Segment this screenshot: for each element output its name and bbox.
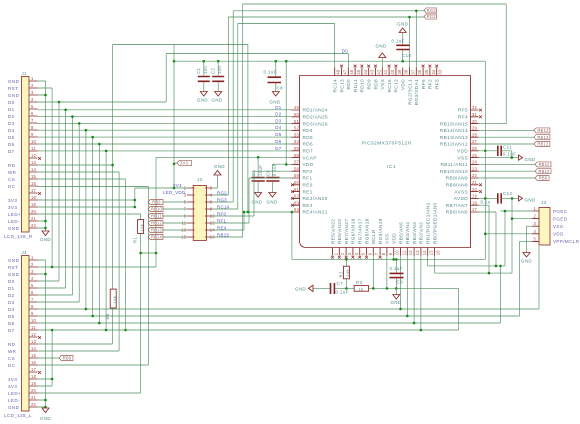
svg-text:RB13: RB13 bbox=[537, 135, 549, 140]
svg-text:C8: C8 bbox=[277, 86, 284, 91]
wire VDD right side rail down to J3 and bottom bbox=[292, 61, 532, 273]
svg-text:D4: D4 bbox=[8, 128, 15, 133]
svg-text:0.1uF: 0.1uF bbox=[336, 290, 349, 295]
wire net D4 J1-J4 long run to riser bbox=[38, 130, 540, 309]
svg-text:GND: GND bbox=[525, 198, 536, 203]
wire net RD J1-J4 through R6 and top link bbox=[38, 45, 248, 345]
svg-text:11: 11 bbox=[31, 146, 36, 151]
wire VSS top pin to ground bbox=[381, 58, 383, 68]
svg-text:MCLR: MCLR bbox=[371, 229, 376, 244]
svg-text:WR: WR bbox=[8, 170, 17, 175]
svg-text:VSS: VSS bbox=[380, 79, 385, 90]
svg-text:RE5/AN22: RE5/AN22 bbox=[330, 219, 335, 244]
svg-text:RF1: RF1 bbox=[303, 176, 313, 181]
svg-text:RB3/AN3: RB3/AN3 bbox=[412, 222, 417, 244]
svg-text:1k: 1k bbox=[359, 286, 364, 291]
svg-text:CS: CS bbox=[8, 177, 15, 182]
node label box RB13 bbox=[534, 135, 550, 140]
svg-text:PGEC: PGEC bbox=[553, 209, 568, 214]
svg-text:RB15/AN15: RB15/AN15 bbox=[440, 121, 468, 126]
ground symbol above VSS top pin bbox=[379, 53, 386, 58]
wires IC bottom pins RB5-RB2 to bus rows bbox=[401, 256, 421, 331]
wire J4 CS row to label box bbox=[38, 357, 60, 359]
svg-text:28: 28 bbox=[472, 132, 478, 137]
IC1 nc x-marks right pins bbox=[479, 109, 482, 112]
svg-text:R3: R3 bbox=[356, 280, 363, 285]
svg-text:RG9/AN19: RG9/AN19 bbox=[378, 218, 383, 244]
ground symbol below J4 bbox=[42, 408, 49, 413]
svg-text:RB15: RB15 bbox=[217, 232, 229, 237]
svg-text:10uF: 10uF bbox=[258, 165, 263, 176]
svg-text:C7: C7 bbox=[337, 281, 344, 286]
svg-text:11: 11 bbox=[401, 250, 406, 255]
svg-text:VCAP: VCAP bbox=[303, 155, 317, 160]
capacitor C10 0.1uF at VDD top bbox=[396, 45, 409, 49]
svg-text:22: 22 bbox=[472, 173, 478, 178]
svg-text:RB7/AN7: RB7/AN7 bbox=[446, 203, 468, 208]
supply label 3V3 bbox=[174, 162, 177, 164]
svg-text:GND: GND bbox=[8, 79, 20, 84]
svg-text:RD10: RD10 bbox=[360, 79, 365, 93]
svg-text:GND: GND bbox=[269, 100, 280, 105]
svg-text:GND: GND bbox=[397, 22, 408, 27]
svg-text:11: 11 bbox=[31, 325, 36, 330]
svg-text:RB10/AN10: RB10/AN10 bbox=[440, 169, 468, 174]
svg-text:AVSS: AVSS bbox=[454, 189, 468, 194]
svg-text:RC13: RC13 bbox=[339, 79, 344, 93]
svg-text:10: 10 bbox=[31, 318, 37, 323]
node label box RB9 bbox=[535, 176, 549, 181]
svg-text:RB9: RB9 bbox=[539, 176, 548, 181]
svg-text:0.1u: 0.1u bbox=[481, 199, 491, 204]
svg-text:41: 41 bbox=[383, 69, 388, 75]
connector J1 LCD_128_R body bbox=[22, 77, 30, 233]
IC1 nc x-marks bottom pins bbox=[331, 256, 334, 259]
svg-text:GND: GND bbox=[211, 97, 222, 102]
connector J2 body bbox=[193, 185, 206, 240]
svg-text:GND: GND bbox=[266, 200, 277, 205]
ground symbol below C6 bbox=[269, 193, 276, 198]
svg-text:45: 45 bbox=[356, 69, 361, 75]
svg-text:C10: C10 bbox=[402, 53, 411, 58]
svg-text:RB13: RB13 bbox=[151, 228, 163, 233]
svg-text:D2: D2 bbox=[8, 114, 15, 119]
wire VDD rail across top bbox=[174, 61, 485, 164]
svg-text:RB11/AN11: RB11/AN11 bbox=[441, 162, 468, 167]
svg-text:19: 19 bbox=[31, 381, 37, 386]
svg-text:17: 17 bbox=[31, 188, 37, 193]
svg-text:21: 21 bbox=[31, 216, 37, 221]
wire net D0 J1-J4 and to RD0 bbox=[38, 54, 349, 282]
svg-text:D3: D3 bbox=[275, 118, 281, 123]
ground symbol above C10 bbox=[399, 28, 406, 33]
svg-text:RC14: RC14 bbox=[333, 79, 338, 93]
svg-text:GND: GND bbox=[521, 259, 532, 264]
svg-text:3V3: 3V3 bbox=[180, 161, 188, 166]
ground symbol below J3 bbox=[523, 253, 530, 258]
wire net D5 J1-J4 long run to J3 pin5 riser bbox=[38, 137, 533, 316]
connector J1 pin stubs bbox=[29, 81, 38, 228]
svg-text:10k: 10k bbox=[139, 224, 144, 232]
svg-text:35: 35 bbox=[424, 69, 429, 75]
svg-text:RG3: RG3 bbox=[217, 197, 227, 202]
svg-text:56: 56 bbox=[294, 153, 300, 158]
connector J4 nc x-marks pins 12 17 bbox=[38, 336, 41, 339]
svg-text:46: 46 bbox=[349, 69, 354, 75]
svg-text:LCD_128_R: LCD_128_R bbox=[4, 234, 33, 239]
svg-text:C5: C5 bbox=[251, 170, 256, 176]
svg-text:C6: C6 bbox=[265, 170, 270, 176]
svg-text:48: 48 bbox=[336, 69, 341, 75]
svg-text:0.1uF: 0.1uF bbox=[272, 163, 277, 176]
svg-text:49: 49 bbox=[294, 105, 300, 110]
svg-text:RD3/AN26: RD3/AN26 bbox=[303, 121, 328, 126]
ground symbol left of C7 bbox=[308, 285, 313, 291]
svg-text:44: 44 bbox=[363, 69, 368, 75]
svg-text:RE4: RE4 bbox=[217, 225, 227, 230]
capacitor C6 0.1uF bbox=[266, 178, 279, 181]
svg-text:RB4/AN4: RB4/AN4 bbox=[405, 222, 410, 244]
svg-text:38: 38 bbox=[404, 69, 409, 75]
svg-text:RB13/AN13: RB13/AN13 bbox=[440, 135, 468, 140]
svg-text:RG2: RG2 bbox=[217, 190, 227, 195]
svg-text:12: 12 bbox=[31, 153, 37, 158]
svg-text:C11: C11 bbox=[503, 144, 512, 149]
capacitor C8 0.1uF bbox=[268, 77, 282, 82]
resistor R3 1k bbox=[354, 286, 369, 292]
svg-text:23: 23 bbox=[472, 166, 478, 171]
wire net PGEC J3 to IC bottom bbox=[428, 211, 532, 266]
connector J2 pin stubs bbox=[187, 188, 212, 237]
svg-text:J1: J1 bbox=[22, 71, 28, 76]
ground symbol right of C12 bbox=[519, 196, 523, 201]
svg-text:PGED: PGED bbox=[553, 216, 568, 221]
svg-text:20: 20 bbox=[472, 187, 478, 192]
svg-text:GND: GND bbox=[8, 405, 20, 410]
wire net DC J1-J4 bbox=[38, 187, 149, 366]
svg-text:R6: R6 bbox=[105, 313, 110, 319]
wire net RE4 J2 to IC bbox=[212, 212, 292, 230]
svg-text:0.1uF: 0.1uF bbox=[503, 152, 516, 157]
svg-text:RD6: RD6 bbox=[303, 142, 314, 147]
svg-text:AVDD: AVDD bbox=[454, 196, 468, 201]
svg-text:10n: 10n bbox=[203, 66, 208, 74]
svg-text:13: 13 bbox=[415, 250, 420, 256]
svg-text:3V3: 3V3 bbox=[8, 198, 17, 203]
wire net 3V3 J1 rows to vertical bbox=[38, 188, 191, 207]
svg-text:RB12: RB12 bbox=[151, 221, 163, 226]
svg-text:18: 18 bbox=[31, 374, 37, 379]
svg-text:C1: C1 bbox=[196, 68, 201, 74]
svg-text:CS: CS bbox=[8, 356, 15, 361]
svg-text:RD8: RD8 bbox=[373, 79, 378, 90]
svg-text:55: 55 bbox=[294, 146, 300, 151]
svg-text:RST: RST bbox=[8, 86, 18, 91]
svg-text:D1: D1 bbox=[8, 286, 15, 291]
connector J4 pin stubs bbox=[29, 260, 38, 407]
svg-text:52: 52 bbox=[294, 126, 300, 131]
ground symbol below J1 bbox=[42, 231, 49, 236]
svg-text:21: 21 bbox=[31, 395, 37, 400]
svg-text:IC1: IC1 bbox=[387, 164, 396, 170]
svg-text:60: 60 bbox=[294, 180, 300, 185]
svg-text:RB9/AN9: RB9/AN9 bbox=[446, 176, 468, 181]
svg-text:54: 54 bbox=[294, 139, 300, 144]
svg-text:31: 31 bbox=[472, 112, 478, 117]
svg-text:D6: D6 bbox=[275, 139, 281, 144]
node label box RB14 bbox=[534, 128, 550, 133]
svg-text:RG8/AN18: RG8/AN18 bbox=[364, 218, 369, 244]
svg-text:GND: GND bbox=[295, 287, 306, 292]
capacitor C5 10uF bbox=[252, 178, 265, 181]
svg-text:47: 47 bbox=[342, 69, 347, 75]
svg-text:VDD: VDD bbox=[553, 232, 564, 237]
svg-text:RC14: RC14 bbox=[217, 204, 230, 209]
svg-text:RF5: RF5 bbox=[458, 108, 468, 113]
svg-text:RG7/AN17: RG7/AN17 bbox=[358, 218, 363, 244]
svg-text:RD11: RD11 bbox=[353, 79, 358, 92]
wires IC right pins to label boxes RB11 RB10 RB9 bbox=[479, 164, 536, 178]
svg-text:D5: D5 bbox=[275, 132, 281, 137]
node label box RB10 bbox=[535, 169, 551, 174]
wire net RF0 J2 to IC bbox=[212, 171, 292, 216]
svg-text:RB11: RB11 bbox=[539, 162, 550, 167]
svg-text:D6: D6 bbox=[8, 321, 15, 326]
svg-text:D6: D6 bbox=[8, 142, 15, 147]
svg-text:51: 51 bbox=[294, 119, 300, 124]
svg-text:19: 19 bbox=[31, 202, 37, 207]
node label box RG3 bbox=[424, 8, 437, 13]
IC1 pin stubs left right top bottom bbox=[292, 68, 479, 256]
svg-text:C9: C9 bbox=[397, 280, 404, 285]
node label box RB11 bbox=[535, 162, 551, 167]
svg-text:61: 61 bbox=[294, 187, 300, 192]
svg-text:RB10: RB10 bbox=[538, 169, 550, 174]
svg-text:RB1/PGEC1/AN1: RB1/PGEC1/AN1 bbox=[426, 202, 431, 244]
svg-text:D1: D1 bbox=[8, 107, 15, 112]
svg-text:36: 36 bbox=[417, 69, 422, 75]
svg-text:RB14: RB14 bbox=[537, 128, 549, 133]
svg-text:RD5: RD5 bbox=[303, 135, 314, 140]
svg-text:LCD_128_L: LCD_128_L bbox=[4, 413, 32, 418]
svg-text:D5: D5 bbox=[8, 135, 15, 140]
svg-text:GND: GND bbox=[375, 44, 386, 49]
wire net D3 J1-J4-IC1 bbox=[38, 123, 292, 302]
wire net 3V3 at J4 rows bbox=[38, 330, 53, 386]
svg-text:D7: D7 bbox=[8, 328, 15, 333]
svg-text:VSS: VSS bbox=[457, 155, 468, 160]
ground symbol below C1 bbox=[200, 92, 207, 97]
svg-text:RB0/PGED1/AN0: RB0/PGED1/AN0 bbox=[432, 202, 437, 244]
IC1 nc x-marks top pins bbox=[340, 65, 343, 68]
svg-text:RE0: RE0 bbox=[303, 183, 313, 188]
svg-text:RB6/AN6: RB6/AN6 bbox=[446, 210, 468, 215]
svg-text:GND: GND bbox=[8, 93, 20, 98]
svg-text:D5: D5 bbox=[8, 314, 15, 319]
svg-text:58: 58 bbox=[294, 166, 300, 171]
svg-text:RG6/AN16: RG6/AN16 bbox=[351, 218, 356, 244]
svg-text:D1: D1 bbox=[275, 105, 281, 110]
svg-text:17: 17 bbox=[472, 207, 478, 212]
svg-text:LED-: LED- bbox=[8, 398, 20, 403]
svg-text:14: 14 bbox=[31, 167, 37, 172]
svg-text:VDD: VDD bbox=[303, 162, 314, 167]
capacitor C7 0.1uF bbox=[331, 283, 335, 294]
svg-text:3V3: 3V3 bbox=[8, 384, 17, 389]
wire net GND at J1 with junctions bbox=[38, 81, 46, 231]
svg-text:RF6: RF6 bbox=[421, 79, 426, 89]
svg-text:J2: J2 bbox=[197, 177, 203, 182]
svg-text:39: 39 bbox=[397, 69, 402, 75]
svg-text:GND: GND bbox=[525, 157, 536, 162]
svg-text:RE3: RE3 bbox=[303, 203, 313, 208]
svg-text:DC: DC bbox=[8, 184, 16, 189]
capacitor C12 0.1uF at AVDD bbox=[498, 193, 501, 203]
svg-text:19: 19 bbox=[472, 194, 478, 199]
connector J3 pin stubs bbox=[532, 211, 539, 241]
svg-text:40: 40 bbox=[390, 69, 395, 75]
svg-text:C12: C12 bbox=[503, 191, 512, 196]
svg-text:RD0: RD0 bbox=[346, 79, 351, 90]
wire net VCAP line to C5 bbox=[156, 156, 292, 158]
svg-text:GND: GND bbox=[390, 300, 401, 305]
connector J3 body bbox=[539, 208, 550, 246]
wire net RG3 from J2 to rail to IC and label bbox=[212, 11, 424, 202]
svg-text:RD1/AN24: RD1/AN24 bbox=[303, 108, 328, 113]
svg-text:LED+: LED+ bbox=[8, 212, 21, 217]
svg-text:R2: R2 bbox=[338, 271, 343, 277]
svg-text:64: 64 bbox=[294, 207, 300, 212]
connector J1 nc x-marks pins 12 17 bbox=[38, 157, 41, 160]
svg-text:GND: GND bbox=[8, 258, 20, 263]
svg-text:RD9: RD9 bbox=[367, 79, 372, 90]
svg-text:D7: D7 bbox=[275, 146, 281, 151]
svg-text:0.1uF: 0.1uF bbox=[392, 39, 405, 44]
svg-text:RF0: RF0 bbox=[217, 211, 226, 216]
svg-text:RB12/AN12: RB12/AN12 bbox=[440, 142, 468, 147]
svg-text:GND: GND bbox=[251, 200, 262, 205]
svg-text:30: 30 bbox=[472, 119, 478, 124]
wire net 3V3 supply vertical from VDD rail bbox=[173, 45, 175, 189]
svg-text:RG3/SDA1: RG3/SDA1 bbox=[414, 79, 419, 105]
svg-text:GND: GND bbox=[8, 272, 20, 277]
svg-text:RB9: RB9 bbox=[152, 200, 161, 205]
svg-text:D4: D4 bbox=[8, 307, 15, 312]
wire net D1 J1-J4-IC1 bbox=[38, 110, 292, 288]
svg-text:RD4: RD4 bbox=[303, 128, 314, 133]
svg-text:18: 18 bbox=[31, 195, 37, 200]
svg-text:0.1uF: 0.1uF bbox=[264, 70, 277, 75]
svg-text:29: 29 bbox=[472, 126, 478, 131]
resistor R2 10k bbox=[345, 259, 347, 288]
svg-text:RG2: RG2 bbox=[427, 14, 437, 19]
wire net CS J1 down to D7 row bbox=[38, 179, 126, 330]
svg-text:22: 22 bbox=[31, 223, 37, 228]
svg-text:3V3: 3V3 bbox=[8, 377, 17, 382]
svg-text:D0: D0 bbox=[8, 100, 15, 105]
svg-text:10k: 10k bbox=[112, 296, 117, 304]
ground symbol below C2 bbox=[215, 92, 222, 97]
svg-text:15: 15 bbox=[31, 353, 37, 358]
svg-text:42: 42 bbox=[376, 69, 381, 75]
svg-text:0.1uF: 0.1uF bbox=[390, 266, 403, 271]
svg-text:RE1: RE1 bbox=[303, 189, 313, 194]
wire J3 VSS to ground bbox=[527, 226, 533, 252]
wire net RST J1-J4 and to R1 node bbox=[38, 88, 157, 267]
svg-text:14: 14 bbox=[422, 250, 427, 256]
svg-text:12: 12 bbox=[31, 332, 37, 337]
capacitor C9 0.1uF bbox=[390, 273, 404, 277]
svg-text:J4: J4 bbox=[22, 250, 28, 255]
svg-text:GND: GND bbox=[8, 226, 20, 231]
svg-text:13: 13 bbox=[31, 339, 37, 344]
svg-text:16: 16 bbox=[31, 360, 37, 365]
svg-text:10n: 10n bbox=[217, 66, 222, 74]
svg-text:15: 15 bbox=[31, 174, 37, 179]
svg-text:RC12: RC12 bbox=[394, 79, 399, 93]
svg-text:21: 21 bbox=[472, 180, 478, 185]
svg-text:22: 22 bbox=[31, 402, 37, 407]
svg-text:10k: 10k bbox=[345, 269, 350, 277]
wires J2 left pins to label boxes bbox=[163, 202, 188, 237]
svg-text:D0: D0 bbox=[8, 279, 15, 284]
svg-text:VDD: VDD bbox=[457, 149, 468, 154]
wire net LED+ J1 through R1 R6 chain to J4 bbox=[38, 214, 141, 393]
svg-text:D7: D7 bbox=[8, 149, 15, 154]
svg-text:37: 37 bbox=[410, 69, 415, 75]
svg-text:D0: D0 bbox=[342, 49, 348, 54]
svg-text:13: 13 bbox=[31, 160, 37, 165]
svg-text:34: 34 bbox=[431, 69, 436, 75]
svg-text:18: 18 bbox=[472, 200, 478, 205]
svg-text:RD: RD bbox=[8, 163, 16, 168]
svg-text:43: 43 bbox=[370, 69, 375, 75]
svg-text:RB10: RB10 bbox=[151, 207, 163, 212]
ground symbol below C5 bbox=[255, 193, 262, 198]
svg-text:C2: C2 bbox=[210, 68, 215, 74]
svg-text:RF0: RF0 bbox=[303, 169, 313, 174]
svg-text:RB5/AN5: RB5/AN5 bbox=[398, 222, 403, 244]
IC1 nc x-marks left pins RE0-RE3 bbox=[291, 183, 294, 186]
svg-text:53: 53 bbox=[294, 132, 300, 137]
capacitor C2 10n bbox=[212, 77, 224, 82]
svg-text:3V3: 3V3 bbox=[8, 205, 17, 210]
svg-text:32: 32 bbox=[472, 105, 478, 110]
svg-text:RC15: RC15 bbox=[387, 79, 392, 93]
svg-text:VDD: VDD bbox=[401, 79, 406, 90]
svg-text:DC: DC bbox=[8, 363, 16, 368]
svg-text:26: 26 bbox=[472, 146, 478, 151]
svg-text:16: 16 bbox=[31, 181, 37, 186]
svg-text:16: 16 bbox=[435, 250, 440, 256]
svg-text:50: 50 bbox=[294, 112, 300, 117]
wire MCLR ground line with junctions bbox=[313, 256, 459, 289]
svg-text:RF4: RF4 bbox=[458, 115, 468, 120]
svg-text:LED_VDD: LED_VDD bbox=[163, 190, 185, 195]
svg-text:RD7: RD7 bbox=[303, 149, 314, 154]
svg-text:RB9: RB9 bbox=[63, 356, 72, 361]
svg-text:WR: WR bbox=[8, 349, 17, 354]
node label box RG2 bbox=[424, 14, 437, 19]
ground symbol above J2 pin2 bbox=[214, 170, 221, 175]
wire J2 pin2 to ground bbox=[212, 175, 218, 188]
svg-text:RE4/AN21: RE4/AN21 bbox=[303, 210, 328, 215]
wire net RC14 from J2 to IC top bbox=[212, 24, 335, 210]
svg-text:10: 10 bbox=[395, 250, 400, 256]
capacitor C1 10n bbox=[198, 77, 210, 82]
wire net GND at J4 with junctions bbox=[38, 260, 46, 408]
svg-text:RST: RST bbox=[8, 265, 18, 270]
